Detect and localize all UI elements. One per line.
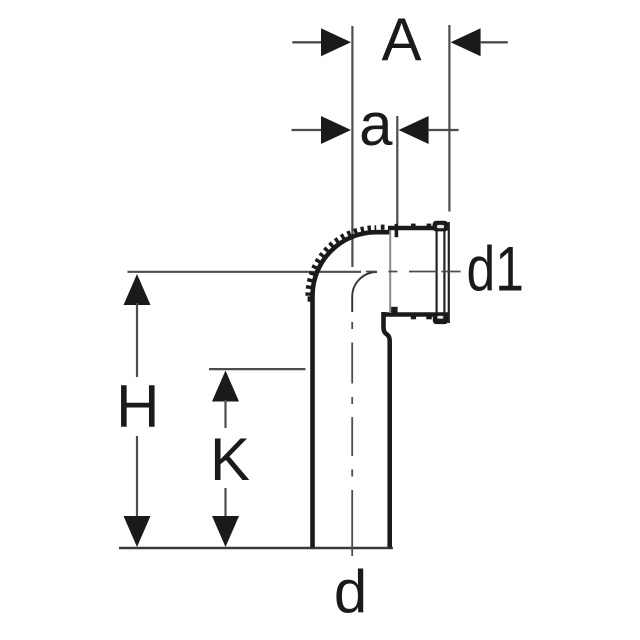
- label d1: [467, 235, 524, 305]
- seal inner vertical line 2: [443, 231, 445, 314]
- seal inner vertical line 1: [436, 231, 438, 314]
- seal bead top: [433, 221, 449, 232]
- dimension A tail left: [292, 41, 322, 43]
- dimension H arrowhead up: [124, 274, 151, 305]
- dimension A arrowhead left: [321, 28, 351, 56]
- dimension a tail right: [428, 129, 459, 131]
- socket end face line: [448, 222, 450, 323]
- dimension H arrowhead down: [124, 516, 151, 547]
- svg-text:A: A: [381, 6, 421, 73]
- dimension K arrowhead down: [212, 516, 239, 547]
- dimension A extension line left: [351, 26, 353, 267]
- socket rib bump bottom 2: [426, 316, 432, 319]
- dimension K arrowhead up: [212, 371, 239, 402]
- socket rib bump top 1: [411, 224, 416, 227]
- dimension K line lower: [224, 488, 226, 518]
- dimension A tail right: [480, 41, 508, 43]
- baseline (floor line): [119, 547, 393, 550]
- dimension H line upper: [136, 303, 138, 377]
- step from socket down to pipe right edge: [384, 312, 390, 548]
- corrugation tooth on top straight: [381, 225, 385, 230]
- svg-text:K: K: [210, 426, 250, 493]
- svg-text:a: a: [359, 91, 393, 158]
- socket rib bump top 2: [427, 224, 432, 227]
- socket internal stop block: [391, 307, 398, 313]
- corrugation tooth on left straight: [308, 296, 312, 301]
- svg-text:d: d: [334, 558, 367, 625]
- socket top edge: [388, 226, 448, 231]
- svg-text:H: H: [116, 373, 159, 440]
- dimension a tail left: [292, 129, 323, 131]
- dimension A arrowhead right: [451, 28, 481, 56]
- corrugation teeth along bend arc: [308, 228, 376, 296]
- pipe outline: left edge + outer bend arc + top straight: [312, 232, 389, 547]
- dimension K line upper: [224, 400, 226, 428]
- dimension a arrowhead right: [399, 116, 429, 144]
- horizontal centerline: [366, 271, 461, 273]
- vertical centerline: [351, 322, 353, 556]
- dimension K extension line top: [209, 368, 306, 370]
- dimension a arrowhead left: [321, 116, 351, 144]
- svg-text:d1: d1: [467, 235, 524, 305]
- centerline bend arc: [352, 272, 377, 312]
- dimension A extension line right: [448, 25, 450, 212]
- dimension H extension line top: [128, 271, 362, 273]
- seal bead bottom: [433, 314, 448, 324]
- dimension H line lower: [136, 436, 138, 518]
- socket separating tick top: [395, 224, 399, 237]
- socket rib bump bottom 1: [411, 316, 416, 319]
- dimension a extension line right: [396, 116, 398, 224]
- socket bottom edge: [384, 312, 449, 317]
- socket internal depth line: [389, 231, 391, 314]
